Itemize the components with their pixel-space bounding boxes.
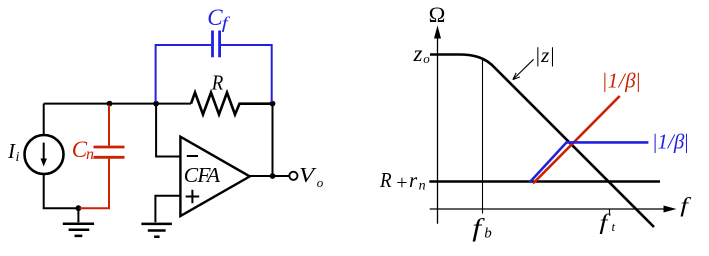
svg-text:o: o	[423, 51, 430, 66]
svg-text:t: t	[612, 219, 616, 234]
svg-text:r: r	[409, 168, 418, 192]
svg-text:b: b	[484, 226, 492, 242]
svg-text:Ω: Ω	[429, 2, 446, 27]
svg-text:z: z	[413, 41, 423, 66]
svg-text:+: +	[396, 172, 407, 194]
svg-text:|z|: |z|	[536, 43, 556, 67]
svg-text:n: n	[86, 146, 94, 163]
svg-text:CFA: CFA	[184, 163, 221, 187]
svg-text:R: R	[379, 169, 391, 192]
svg-text:o: o	[317, 175, 324, 190]
svg-text:|1/β|: |1/β|	[603, 69, 641, 93]
svg-text:R: R	[211, 71, 223, 94]
svg-text:i: i	[16, 150, 20, 165]
svg-text:n: n	[419, 178, 426, 193]
svg-text:|1/β|: |1/β|	[653, 130, 689, 154]
